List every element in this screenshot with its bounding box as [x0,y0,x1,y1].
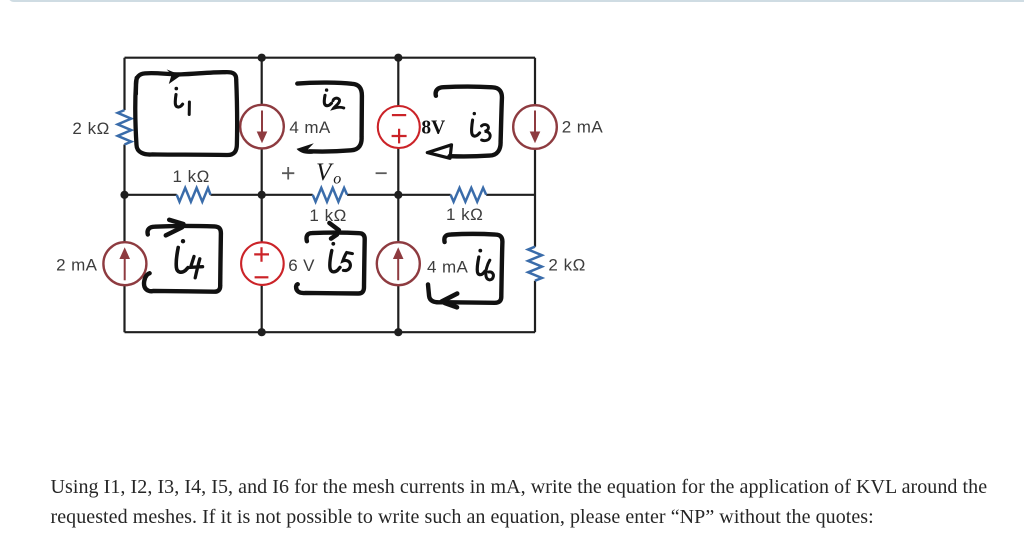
mesh label i4 [176,239,202,278]
wire middle [125,194,536,196]
svg-text:1 kΩ: 1 kΩ [446,205,483,224]
node top-C [394,54,402,62]
svg-text:8V: 8V [421,117,445,138]
label 4 mA bottom [427,257,469,276]
svg-text:1 kΩ: 1 kΩ [309,206,346,225]
svg-text:o: o [333,171,341,188]
label 4 mA top [289,118,331,137]
svg-text:4 mA: 4 mA [289,118,331,137]
label 2 mA left [56,256,98,275]
label 6 V [288,256,315,275]
mesh loop i6 [428,234,502,303]
resistor 2k right [528,247,542,281]
mesh arrow i6 [442,294,457,308]
svg-text:6 V: 6 V [288,256,315,275]
node mid-left [120,191,128,199]
node bottom-B [258,328,266,336]
voltage source 8V [378,106,420,148]
label 1 kOhm right-mid [446,205,483,224]
mesh arrow i5 [329,223,339,239]
question paragraph [51,472,1011,532]
mesh arrow i2 [297,143,314,154]
node mid-B [258,191,266,199]
label 1 kOhm left-mid [173,167,210,186]
resistor 1k left-mid [177,188,211,202]
wire left [123,58,125,333]
mesh loop i2 [297,83,362,152]
node top-B [258,54,266,62]
label 2 mA right [562,118,604,137]
svg-text:1 kΩ: 1 kΩ [173,167,210,186]
current source 4mA top [240,105,284,149]
mesh label i1 [175,87,190,115]
current source 2mA left [103,242,146,285]
label 8V [421,117,445,138]
label plus Vo [282,167,294,180]
mesh arrow i1 [167,69,182,84]
mesh label i3 [472,112,491,141]
mesh loop i1 [135,72,237,155]
svg-text:2 mA: 2 mA [562,118,604,137]
wire right [534,58,536,333]
resistor 2k left [118,110,132,144]
svg-text:2 mA: 2 mA [56,256,98,275]
mesh arrow i4 [166,220,184,236]
label 2 kOhm right [548,256,585,275]
wire bottom [125,331,536,333]
resistor 1k mid (Vo) [313,188,347,202]
svg-text:2 kΩ: 2 kΩ [548,256,585,275]
wire vertical B [261,58,263,333]
mesh label i6 [477,249,493,280]
current source 4mA bottom [377,242,420,285]
svg-text:V: V [316,159,334,186]
mesh arrow i3 [427,145,451,159]
label Vo [316,159,341,188]
node mid-C [394,191,402,199]
mesh label i5 [330,242,353,272]
label 1 kOhm mid [309,206,346,225]
voltage source 6V [241,242,284,285]
node bottom-C [394,328,402,336]
label 2 kOhm left [72,119,109,138]
wire vertical C [397,58,399,333]
mesh loop i3 [436,87,502,157]
svg-text:4 mA: 4 mA [427,257,469,276]
top panel bottom edge [8,0,1024,2]
mesh loop i5 [296,233,365,294]
current source 2mA right [513,105,557,149]
resistor 1k right-mid [451,188,487,202]
label minus Vo [376,172,387,174]
wire top [125,57,536,59]
mesh label i2 [324,88,344,108]
mesh loop i4 [144,226,221,292]
svg-text:2 kΩ: 2 kΩ [72,119,109,138]
